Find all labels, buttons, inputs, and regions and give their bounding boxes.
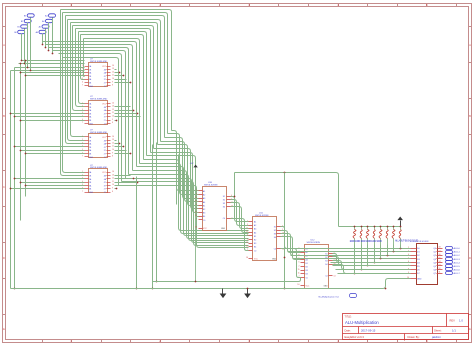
- svg-text:13: 13: [112, 68, 114, 70]
- svg-text:11: 11: [195, 215, 197, 217]
- svg-text:10: 10: [112, 149, 114, 151]
- svg-text:S2: S2: [274, 230, 276, 232]
- svg-text:12: 12: [195, 201, 197, 203]
- svg-text:10: 10: [112, 78, 114, 80]
- svg-text:ALU-3: ALU-3: [454, 258, 461, 261]
- svg-text:ALU-0: ALU-0: [454, 247, 461, 250]
- svg-text:S4: S4: [223, 207, 225, 209]
- svg-text:S3: S3: [223, 203, 225, 205]
- svg-text:7: 7: [196, 219, 197, 221]
- svg-text:12: 12: [112, 142, 114, 144]
- svg-text:14: 14: [112, 171, 114, 173]
- svg-text:ALU-1: ALU-1: [454, 251, 461, 254]
- svg-text:GND: GND: [221, 228, 226, 230]
- svg-text:No-Multiplication Out: No-Multiplication Out: [319, 296, 340, 299]
- svg-text:A2: A2: [254, 224, 256, 227]
- svg-text:15: 15: [195, 211, 197, 213]
- svg-text:10: 10: [112, 184, 114, 186]
- svg-text:ALU-7: ALU-7: [454, 272, 461, 275]
- svg-text:1: 1: [82, 171, 83, 173]
- svg-text:17: 17: [439, 250, 441, 252]
- svg-text:15: 15: [439, 257, 441, 259]
- svg-text:6: 6: [196, 204, 197, 206]
- svg-text:GND: GND: [89, 123, 94, 125]
- svg-text:B3: B3: [306, 270, 308, 272]
- svg-text:9: 9: [112, 81, 113, 83]
- svg-text:ALU-4: ALU-4: [454, 261, 461, 264]
- svg-text:15: 15: [246, 242, 248, 244]
- svg-text:GND: GND: [89, 157, 94, 159]
- svg-text:SN74LS08N-4ND: SN74LS08N-4ND: [90, 99, 108, 101]
- svg-text:S3: S3: [325, 261, 327, 263]
- svg-text:14: 14: [112, 65, 114, 67]
- svg-text:A3: A3: [254, 228, 256, 231]
- svg-text:B1: B1: [306, 263, 308, 265]
- svg-text:TITLE:: TITLE:: [345, 316, 353, 319]
- svg-text:2: 2: [82, 139, 83, 141]
- svg-text:Drawn By:: Drawn By:: [408, 335, 420, 339]
- svg-text:100R 100R 100R 100R 100R 100R: 100R 100R 100R 100R 100R 100R: [350, 239, 383, 243]
- svg-text:B4: B4: [254, 247, 256, 249]
- svg-text:SN74LS283N: SN74LS283N: [204, 185, 218, 187]
- svg-text:14: 14: [112, 136, 114, 138]
- svg-text:EasyEDA v4.9.3: EasyEDA v4.9.3: [345, 335, 365, 339]
- svg-text:S1: S1: [274, 227, 276, 229]
- svg-text:8: 8: [112, 156, 113, 158]
- svg-text:11: 11: [298, 273, 300, 275]
- svg-text:14: 14: [334, 275, 336, 277]
- svg-text:Sheet:: Sheet:: [434, 329, 442, 333]
- svg-text:1: 1: [82, 102, 83, 104]
- svg-text:3: 3: [82, 142, 83, 144]
- svg-text:ALU-6: ALU-6: [454, 269, 461, 272]
- svg-text:12: 12: [439, 268, 441, 270]
- svg-text:2: 2: [82, 68, 83, 70]
- svg-text:C0: C0: [254, 250, 256, 252]
- svg-text:16: 16: [246, 257, 248, 259]
- svg-text:2: 2: [247, 238, 248, 240]
- svg-text:13: 13: [439, 265, 441, 267]
- svg-text:S4: S4: [325, 264, 327, 266]
- svg-text:8: 8: [112, 85, 113, 87]
- svg-text:GND: GND: [272, 259, 277, 261]
- svg-text:2: 2: [82, 106, 83, 108]
- svg-text:8: 8: [112, 191, 113, 193]
- svg-text:SN74LS08N-4ND: SN74LS08N-4ND: [90, 167, 108, 169]
- svg-text:11: 11: [112, 146, 114, 148]
- svg-text:2: 2: [196, 208, 197, 210]
- svg-text:2017-09-15: 2017-09-15: [361, 329, 376, 333]
- svg-text:Date:: Date:: [345, 329, 351, 333]
- svg-text:7: 7: [82, 85, 83, 87]
- svg-text:1: 1: [82, 136, 83, 138]
- svg-text:3: 3: [196, 193, 197, 195]
- svg-text:C4: C4: [325, 276, 327, 278]
- svg-text:+5V: +5V: [190, 163, 194, 165]
- svg-text:14: 14: [439, 261, 441, 263]
- svg-text:C4: C4: [223, 218, 225, 220]
- svg-text:S3: S3: [274, 234, 276, 236]
- svg-text:14: 14: [195, 197, 197, 199]
- svg-text:GND: GND: [89, 192, 94, 194]
- svg-text:SN74LS08N-4ND: SN74LS08N-4ND: [90, 132, 108, 134]
- svg-text:B2: B2: [254, 240, 256, 242]
- svg-text:15: 15: [298, 269, 300, 271]
- svg-text:C0: C0: [203, 220, 205, 222]
- svg-text:11: 11: [246, 246, 248, 248]
- svg-text:A1: A1: [254, 221, 256, 224]
- svg-text:12: 12: [112, 109, 114, 111]
- svg-text:9: 9: [112, 152, 113, 154]
- svg-text:12: 12: [112, 71, 114, 73]
- svg-text:7: 7: [82, 156, 83, 158]
- svg-text:1/1: 1/1: [452, 329, 456, 333]
- svg-text:S1: S1: [223, 196, 225, 198]
- svg-text:GND: GND: [89, 86, 94, 88]
- svg-text:B2: B2: [306, 267, 308, 269]
- svg-text:A3: A3: [203, 197, 205, 200]
- svg-text:B3: B3: [254, 243, 256, 245]
- svg-text:C0: C0: [306, 277, 308, 279]
- svg-text:13: 13: [112, 174, 114, 176]
- svg-text:ALU-2: ALU-2: [454, 254, 461, 257]
- svg-text:jakdimi: jakdimi: [431, 335, 441, 339]
- svg-text:SN74LS283N: SN74LS283N: [255, 215, 269, 217]
- svg-text:B4: B4: [203, 216, 205, 218]
- svg-text:A4: A4: [203, 201, 205, 204]
- svg-text:9: 9: [112, 188, 113, 190]
- svg-text:B3: B3: [203, 213, 205, 215]
- svg-text:7: 7: [82, 191, 83, 193]
- svg-text:6: 6: [299, 262, 300, 264]
- svg-text:16: 16: [297, 284, 299, 286]
- svg-text:14: 14: [112, 102, 114, 104]
- svg-text:B4: B4: [306, 274, 308, 276]
- svg-text:2: 2: [299, 265, 300, 267]
- svg-text:A1: A1: [203, 190, 205, 193]
- svg-text:A4: A4: [254, 231, 256, 234]
- svg-text:B1: B1: [203, 205, 205, 207]
- svg-text:16: 16: [439, 254, 441, 256]
- svg-text:ALU-5: ALU-5: [454, 265, 461, 268]
- svg-text:1.0: 1.0: [459, 319, 463, 323]
- svg-text:11: 11: [112, 75, 114, 77]
- svg-text:16: 16: [195, 227, 197, 229]
- svg-text:SN74LS08N-4ND: SN74LS08N-4ND: [90, 61, 108, 63]
- svg-text:B2: B2: [203, 209, 205, 211]
- svg-text:10: 10: [112, 116, 114, 118]
- svg-text:2: 2: [82, 174, 83, 176]
- svg-text:13: 13: [112, 139, 114, 141]
- svg-text:5: 5: [82, 78, 83, 80]
- svg-text:11: 11: [112, 112, 114, 114]
- svg-text:12: 12: [112, 178, 114, 180]
- svg-text:11: 11: [439, 272, 441, 274]
- svg-text:18: 18: [439, 247, 441, 249]
- svg-text:S4: S4: [274, 237, 276, 239]
- svg-text:S2: S2: [223, 200, 225, 202]
- svg-text:13: 13: [112, 106, 114, 108]
- svg-text:3: 3: [82, 109, 83, 111]
- svg-text:7: 7: [82, 122, 83, 124]
- svg-text:A2: A2: [203, 194, 205, 197]
- svg-text:9: 9: [112, 119, 113, 121]
- svg-text:6: 6: [82, 81, 83, 83]
- svg-text:SN74LS283N: SN74LS283N: [307, 242, 321, 244]
- svg-text:1: 1: [82, 65, 83, 67]
- svg-text:GND: GND: [324, 286, 329, 288]
- svg-text:REV: REV: [450, 319, 456, 323]
- svg-text:C4: C4: [274, 249, 276, 251]
- svg-text:B1: B1: [254, 236, 256, 238]
- svg-text:8: 8: [112, 122, 113, 124]
- svg-text:11: 11: [112, 181, 114, 183]
- svg-text:ALU-Multiplication: ALU-Multiplication: [345, 320, 379, 325]
- svg-text:U13 DM74LS240N: U13 DM74LS240N: [410, 241, 429, 243]
- svg-text:5: 5: [196, 190, 197, 192]
- svg-text:6: 6: [247, 235, 248, 237]
- svg-text:GND: GND: [417, 278, 422, 280]
